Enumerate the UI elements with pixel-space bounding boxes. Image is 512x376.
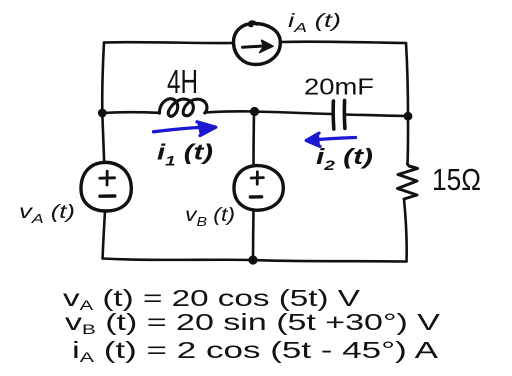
svg-text:4H: 4H (167, 63, 198, 100)
voltage source VB minus (250, 195, 261, 199)
junction node left (98, 109, 107, 118)
wire source B to bottom junction (252, 210, 255, 260)
wire source A to bottom-left corner (103, 211, 105, 259)
wire left vertical to source A (102, 113, 104, 163)
current arrow i2 (blue) (306, 133, 355, 146)
wire right vertical upper (406, 43, 408, 116)
current source top pen loop (249, 22, 257, 27)
wire inductor to capacitor (205, 111, 333, 114)
voltage source VA minus (100, 194, 115, 198)
svg-text:15Ω: 15Ω (432, 162, 481, 197)
svg-text:vA (t): vA (t) (19, 202, 75, 226)
svg-text:20mF: 20mF (304, 74, 374, 100)
voltage source VA circle (81, 162, 131, 211)
wire right junction to resistor (406, 116, 409, 164)
wire current source to top-right corner (280, 42, 406, 43)
capacitor C 20mF plate right (343, 100, 347, 128)
wire capacitor to right junction (345, 115, 408, 117)
junction node bottom (248, 255, 257, 264)
junction node right (404, 112, 413, 121)
svg-text:iA (t) = 2 cos (5t - 45°) A: iA (t) = 2 cos (5t - 45°) A (72, 337, 439, 365)
current source arrowhead (260, 40, 274, 52)
resistor R 15ohm zigzag (398, 164, 418, 199)
current source arrow shaft (243, 46, 264, 47)
wire left junction to inductor (102, 111, 159, 114)
inductor L1 4H (159, 99, 206, 117)
wire bottom (103, 259, 407, 262)
current arrow i1 (blue) (154, 122, 216, 136)
junction node middle top (250, 107, 259, 116)
wire top-left to current source (104, 41, 234, 45)
svg-text:vB (t) = 20 sin (5t +30°) V: vB (t) = 20 sin (5t +30°) V (65, 309, 441, 337)
current source IA circle (233, 23, 280, 64)
voltage source VA plus (100, 171, 115, 185)
wire left vertical upper (102, 43, 104, 114)
wire middle junction to source B (252, 112, 255, 167)
capacitor C 20mF plate left (331, 101, 335, 129)
svg-text:vB (t): vB (t) (185, 205, 235, 229)
wire resistor to bottom-right corner (404, 199, 407, 262)
voltage source VB plus (251, 172, 263, 184)
voltage source VB circle (234, 166, 283, 211)
